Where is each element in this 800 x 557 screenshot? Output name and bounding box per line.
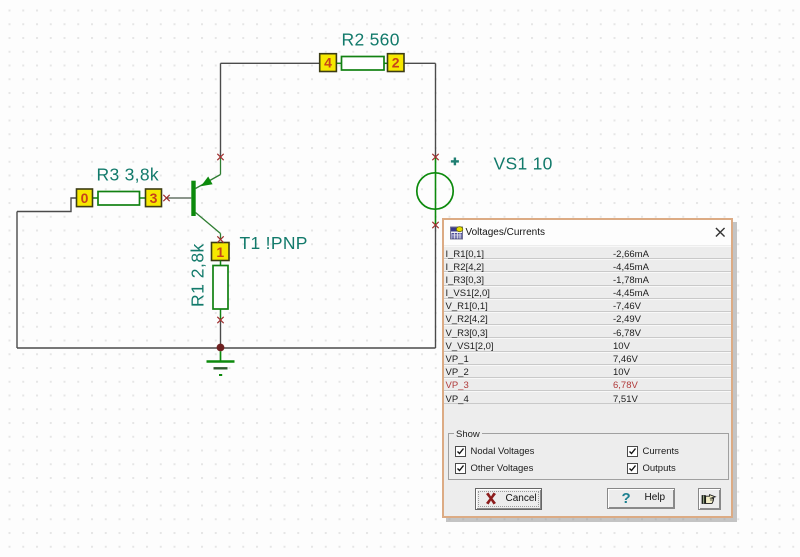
node 2 [388,54,405,72]
resistor R3 [93,192,146,206]
svg-text:VS1 10: VS1 10 [494,154,553,174]
wire bottom horizontal [17,347,436,349]
checkbox Nodal Voltages [455,446,466,457]
pin marker T1 top [217,154,223,160]
wire R2-4 to T1 top horizontal [221,62,320,64]
svg-text:1: 1 [216,244,224,260]
transistor T1 [191,157,220,240]
pin marker R1 bottom [217,317,223,323]
svg-text:T1 !PNP: T1 !PNP [240,233,308,253]
svg-text:4: 4 [324,55,332,71]
svg-text:3: 3 [150,190,158,206]
svg-text:R3 3,8k: R3 3,8k [97,165,159,185]
ground [207,351,235,375]
wire VS1 bottom vertical [435,225,437,348]
wire T1 top riser vertical [220,63,222,157]
node 4 [320,54,337,72]
svg-text:0: 0 [81,190,89,206]
node 0 [77,189,93,207]
svg-text:R2 560: R2 560 [342,30,400,50]
voltage source VS1 [417,157,453,225]
pin marker VS1 bottom [432,222,438,228]
polarity plus VS1 [451,158,459,166]
resistor R2 [336,57,387,71]
dialog close button [715,227,726,238]
dialog icon [450,226,464,240]
wire R3-0 jog [17,198,77,212]
checkbox Currents [627,446,638,457]
dialog Voltages/Currents [442,218,734,519]
wire VS1 riser vertical [435,63,437,157]
junction dot [217,344,225,352]
wire left vertical [16,212,18,349]
group box Show [448,433,729,480]
resistor R1 [213,261,228,321]
wire R2-2 to VS1 horizontal [404,62,436,64]
results list [444,246,732,404]
button Help [607,488,675,509]
button export hand [698,488,721,510]
dialog title bar [444,220,732,245]
button Cancel [475,488,542,510]
node 1 [212,243,230,261]
checkbox Outputs [627,463,638,474]
pin marker node1 top [217,236,223,242]
checkbox Other Voltages [455,463,466,474]
pin marker T1 base [163,195,169,201]
wire T1 base to R3-3 [167,197,192,199]
svg-text:R1 2,8k: R1 2,8k [187,243,207,307]
svg-text:2: 2 [392,55,400,71]
node 3 [146,189,162,207]
wire R1 bottom [220,320,222,345]
pin marker VS1 top [432,154,438,160]
